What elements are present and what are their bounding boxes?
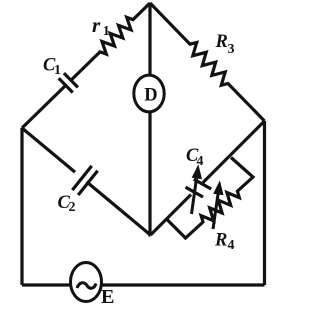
wire (right vertical, right node to bottom-right corner) (263, 121, 266, 285)
svg-text:4: 4 (228, 238, 235, 253)
capacitor C4 plates (186, 187, 203, 197)
svg-text:4: 4 (197, 154, 204, 169)
svg-text:1: 1 (103, 24, 110, 39)
AC source E (circle) (71, 263, 102, 302)
detector D (circle) (134, 75, 164, 112)
capacitor C1 gap (65, 80, 71, 86)
svg-text:3: 3 (228, 42, 235, 57)
svg-text:D: D (144, 86, 157, 106)
capacitor C2 plates (72, 166, 91, 190)
variable-capacitor arrow through C4 (192, 166, 202, 214)
svg-text:2: 2 (69, 200, 76, 215)
wire (lower-left bridge arm carrying capacitor C2) (22, 128, 151, 235)
capacitor C1 plates (59, 78, 73, 92)
capacitor C4 gap (191, 183, 203, 195)
wire (lower-right bridge arm carrying capacitor C4, bottom node to right node) (151, 121, 265, 235)
capacitor C2 gap (75, 172, 87, 182)
svg-text:R: R (214, 231, 227, 251)
svg-text:r: r (92, 13, 101, 37)
wire + resistor r1 (top-left bridge arm, left node to top node) (22, 3, 150, 128)
wire (detector branch, top node through D to bottom node) (148, 3, 152, 235)
AC source sine symbol (77, 283, 96, 289)
wire + resistor R4 (parallel branch of lower-right arm) (167, 158, 254, 239)
wire + resistor R3 (top-right bridge arm, top node to right node) (150, 3, 265, 121)
wire (left vertical, left node to bottom-left corner) (20, 128, 23, 285)
svg-text:1: 1 (54, 63, 61, 78)
svg-text:E: E (101, 286, 114, 307)
wire (bottom, through source E) (22, 283, 265, 286)
svg-text:R: R (215, 32, 228, 52)
variable-resistor arrow through R4 (213, 182, 223, 229)
